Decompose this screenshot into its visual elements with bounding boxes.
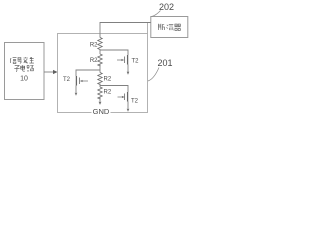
ground GND label [92, 106, 111, 116]
svg-text:T2: T2 [63, 77, 71, 83]
svg-text:R2: R2 [90, 58, 98, 64]
svg-text:R2: R2 [104, 77, 112, 83]
wire: stub from top wire down to box 201 edge [147, 23, 149, 34]
wire: chain segment with tap node to left transistor [99, 65, 101, 73]
wire: arrow from box 10 into divider block [44, 70, 58, 74]
label 子电路 (sub-circuit) line 2 [14, 65, 33, 71]
label 断流器 (breaker) inside box 202 [158, 24, 180, 31]
wire: chain bottom to ground arrow [99, 98, 102, 105]
label 202 with leader line [152, 2, 175, 17]
resistor R2 (fourth in chain) [98, 87, 112, 99]
wire: chain segment with tap node to T2 lower right [99, 84, 101, 88]
current breaker box 202 [151, 17, 188, 38]
wire: tap to lower-right transistor drain [100, 86, 128, 93]
transistor T2 (left) [63, 76, 88, 96]
label 201 with leader line [148, 58, 173, 81]
wire: tap to upper-right transistor drain [100, 50, 128, 55]
svg-text:201: 201 [158, 58, 173, 68]
wire: chain segment R2a-R2b with tap to T2 upper right [99, 50, 101, 54]
wire: tap to left transistor drain [76, 70, 100, 76]
resistor R2 (top, first in chain) [90, 38, 102, 51]
resistor R2 (second in chain) [90, 54, 102, 66]
transistor T2 (lower right) [118, 92, 139, 112]
wire: from divider chain top to box 202 [100, 23, 151, 38]
signal generator sub-circuit box 10 [5, 43, 45, 100]
transistor T2 (upper right) [117, 55, 139, 75]
svg-text:GND: GND [93, 107, 110, 116]
svg-text:T2: T2 [132, 59, 140, 65]
divider sub-circuit box 201 (outline) [58, 34, 148, 113]
svg-text:R2: R2 [104, 90, 112, 96]
label 信号发生 (signal generating) line 1 [10, 57, 34, 63]
svg-text:10: 10 [20, 76, 28, 83]
svg-text:R2: R2 [90, 43, 98, 49]
resistor R2 (third in chain) [98, 73, 112, 85]
svg-text:202: 202 [159, 2, 174, 12]
svg-text:T2: T2 [131, 99, 139, 105]
